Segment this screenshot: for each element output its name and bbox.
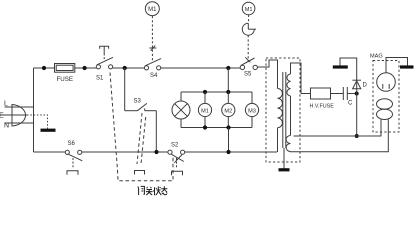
wire left vertical: [33, 68, 35, 152]
wire HV line: [301, 93, 311, 95]
magnetron MAG dashed box: [373, 61, 399, 133]
capacitor C: [343, 87, 347, 100]
fuse FUSE: [55, 64, 75, 73]
load group bottom bus: [181, 127, 252, 129]
wire: [113, 67, 145, 69]
svg-text:FUSE: FUSE: [57, 76, 74, 83]
switch S3 (monitor): [125, 103, 157, 110]
wire earth dotted: [27, 115, 48, 130]
push actuator below S2: [172, 171, 183, 175]
wire filament lower line: [290, 120, 389, 152]
ground (diode): [333, 65, 348, 68]
transformer T1 shield dashed box: [266, 58, 300, 162]
svg-text:S4: S4: [150, 73, 158, 79]
svg-text:S1: S1: [96, 76, 104, 82]
node (branch to load group): [226, 66, 230, 70]
ground (plug earth): [41, 129, 56, 132]
node (filament line junction): [355, 134, 359, 138]
push actuator above S1: [100, 46, 109, 60]
door outline dashed bottom: [118, 157, 174, 181]
node: [226, 90, 230, 94]
wire: [185, 151, 277, 153]
wire antenna to ground: [386, 58, 408, 73]
node: [203, 90, 207, 94]
svg-text:L: L: [4, 101, 8, 108]
wire cap junction down: [356, 94, 358, 137]
switch S4 (timer contact): [144, 59, 161, 70]
wire top rail left: [34, 67, 55, 69]
wire: [82, 151, 168, 153]
linkage dashed from motor M1 to S4: [151, 16, 153, 62]
svg-text:S2: S2: [171, 143, 179, 149]
node (to S3 branch): [123, 66, 127, 70]
svg-text:MAG: MAG: [370, 54, 383, 60]
linkage dashed cam to S5: [248, 15, 250, 23]
load group top bus: [181, 91, 252, 93]
svg-text:M1: M1: [245, 7, 253, 13]
node: [203, 125, 207, 129]
node: [83, 66, 87, 70]
svg-text:S3: S3: [134, 99, 142, 105]
cam follower mark: [149, 45, 156, 50]
svg-text:M2: M2: [224, 108, 232, 114]
svg-text:M1: M1: [148, 7, 157, 13]
motor M3: [245, 92, 258, 128]
svg-text:M1: M1: [201, 108, 209, 114]
svg-text:S5: S5: [244, 72, 252, 78]
wire: [347, 93, 356, 95]
door linkage dashed from S1: [110, 73, 118, 171]
svg-text:M3: M3: [248, 108, 256, 114]
node (cap/diode junction): [355, 92, 359, 96]
node (load group junction): [226, 150, 230, 154]
transformer primary winding: [278, 89, 283, 153]
diode D: [352, 80, 361, 93]
label door-closed-state (door state text): [138, 186, 168, 195]
switch S1 (door interlock): [96, 57, 113, 69]
transformer core: [283, 72, 286, 148]
switch S5 (cam operated): [240, 57, 257, 69]
wire filament upper line: [294, 120, 382, 137]
push actuator below S6: [67, 171, 78, 175]
ground (core to chassis): [279, 148, 290, 170]
wire diode to ground: [340, 58, 357, 80]
switch S2 (door): [168, 150, 185, 168]
wire branch down: [227, 68, 229, 92]
fuse H.V.FUSE: [311, 88, 331, 99]
svg-text:D: D: [363, 83, 368, 89]
wire S5 to transformer: [257, 60, 277, 89]
node: [226, 125, 230, 129]
door linkage dashed second: [141, 117, 146, 164]
svg-text:N: N: [4, 123, 9, 130]
bottom rail left: [34, 151, 66, 153]
node (junction after plug): [42, 66, 46, 70]
push actuator below S3 linkage: [135, 171, 145, 175]
switch S6 (door): [65, 150, 82, 167]
motor M1 (timer motor right): [242, 2, 255, 15]
transformer HV secondary winding: [287, 63, 301, 136]
magnetron filament: [377, 99, 393, 120]
ground (magnetron case): [400, 65, 414, 68]
door linkage dashed from S3: [137, 113, 142, 164]
wire: [331, 93, 344, 95]
motor M1 (fan): [198, 92, 211, 128]
motor M2 (turntable): [222, 92, 235, 128]
transformer filament winding: [286, 136, 290, 152]
node (S3 junction): [154, 150, 158, 154]
svg-text:S6: S6: [68, 141, 76, 147]
wire: [75, 67, 97, 69]
wire S3 down to bottom rail: [155, 111, 157, 152]
svg-text:C: C: [348, 101, 353, 107]
lamp (oven lamp): [172, 92, 190, 128]
svg-text:E: E: [0, 113, 4, 120]
plug P (mains plug L/E/N): [0, 105, 34, 127]
magnetron tube: [377, 73, 396, 92]
cam symbol: [242, 23, 256, 35]
motor M1 (timer motor): [145, 2, 159, 16]
wire S3 branch vertical: [124, 68, 126, 111]
wire rail S4 to S5: [161, 67, 241, 69]
wire group down to bottom rail: [228, 128, 230, 153]
svg-text:H.V.FUSE: H.V.FUSE: [310, 104, 335, 110]
